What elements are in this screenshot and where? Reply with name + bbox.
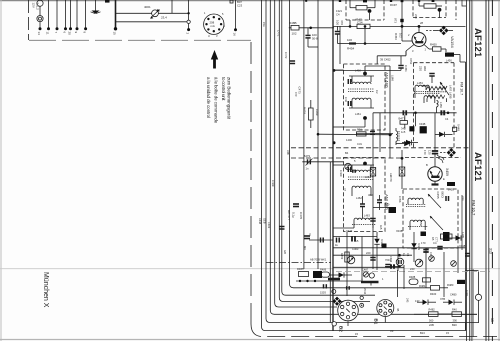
svg-text:R453: R453 — [394, 33, 398, 40]
oval resistor right of B1 — [409, 279, 418, 285]
diode mid — [402, 142, 406, 144]
svg-text:R480: R480 — [447, 283, 454, 287]
svg-text:L462: L462 — [356, 196, 362, 200]
svg-text:C470: C470 — [299, 212, 303, 220]
diode at left bottom — [330, 274, 339, 276]
svg-text:X459: X459 — [445, 168, 449, 176]
svg-text:28: 28 — [420, 21, 423, 25]
wire term4 — [65, 0, 67, 29]
svg-text:560: 560 — [429, 319, 434, 323]
vertical coil L459 — [437, 101, 439, 107]
svg-text:L461: L461 — [355, 112, 361, 116]
svg-text:B479: B479 — [303, 107, 307, 114]
choke black — [445, 53, 454, 57]
border line r3 — [470, 0, 472, 341]
IF transformer 1 — [352, 82, 371, 84]
row y112.8: long line — [373, 112, 457, 114]
svg-text:15: 15 — [490, 318, 494, 322]
blob circle — [396, 258, 404, 266]
svg-text:AF121: AF121 — [472, 28, 483, 58]
transistor T1 — [412, 33, 426, 47]
wire term5 — [70, 0, 72, 29]
svg-text:23,4: 23,4 — [161, 16, 167, 20]
svg-text:L457 L45B: L457 L45B — [449, 85, 453, 99]
svg-text:X44B: X44B — [419, 122, 426, 126]
border line r1 — [466, 0, 468, 341]
capacitor at x337 — [337, 26, 339, 30]
IF transformer 2 — [352, 170, 371, 172]
wire term8 thick — [115, 0, 117, 29]
svg-text:to control unit: to control unit — [221, 77, 226, 101]
svg-text:R4B5: R4B5 — [297, 267, 304, 271]
dashed module box top — [346, 0, 384, 20]
resistor in box — [424, 4, 436, 8]
test point diamond top — [439, 26, 449, 36]
svg-text:L463: L463 — [364, 214, 370, 218]
svg-text:X448: X448 — [457, 124, 461, 131]
svg-text:L456: L456 — [419, 220, 423, 226]
trimmer cap in FM2 — [443, 232, 450, 241]
terminal panel border (dashed) — [29, 0, 252, 40]
diodes bottom — [423, 300, 428, 305]
wire term9 — [188, 0, 190, 20]
long verticals — [346, 232, 348, 296]
svg-text:C31: C31 — [357, 142, 362, 146]
svg-text:VA154: VA154 — [450, 36, 455, 48]
svg-text:X7B: X7B — [440, 297, 445, 301]
between modules row — [357, 132, 367, 136]
trimmer pair — [363, 272, 368, 277]
corner tick — [462, 0, 466, 6]
svg-text:R450: R450 — [430, 43, 437, 47]
svg-text:1321: 1321 — [336, 9, 342, 13]
faint dashed row — [336, 271, 490, 273]
svg-text:220: 220 — [419, 66, 423, 71]
svg-text:460: 460 — [368, 193, 373, 197]
vertical coil — [396, 131, 398, 141]
svg-text:100k: 100k — [315, 109, 319, 116]
svg-text:C2: C2 — [375, 90, 379, 94]
line to diamond — [426, 30, 433, 32]
diode X449 a — [374, 239, 379, 244]
top edge component stubs — [230, 0, 233, 3]
svg-text:C469: C469 — [267, 222, 271, 229]
dash-dot shield line — [267, 262, 332, 264]
capacitor on bus — [293, 204, 299, 207]
page bottom edge — [0, 339, 500, 341]
horizontal y70.4 — [333, 69, 401, 71]
svg-text:L459: L459 — [439, 102, 443, 108]
black cap — [409, 126, 414, 131]
diode X449 b — [411, 243, 416, 248]
wire term1 — [39, 6, 41, 15]
svg-text:L455: L455 — [448, 188, 454, 192]
svg-text:P04x: P04x — [357, 128, 364, 132]
contents of top box — [356, 6, 367, 10]
svg-text:C473: C473 — [298, 87, 302, 95]
svg-text:X449: X449 — [346, 229, 353, 233]
extra tiny labels pass — [271, 3, 469, 336]
svg-text:50-8: 50-8 — [312, 37, 318, 41]
svg-text:12V: 12V — [32, 3, 36, 8]
svg-text:L460: L460 — [355, 69, 361, 73]
svg-text:mA: mA — [211, 24, 215, 28]
svg-text:15: 15 — [446, 331, 449, 335]
choke right of T2 — [447, 182, 455, 186]
wire y21.8 to open contact — [116, 21, 187, 23]
svg-text:313: 313 — [489, 248, 493, 254]
resistor vertical left — [345, 252, 349, 262]
cross link y134 — [318, 133, 392, 136]
long vertical x333 thick — [332, 0, 334, 331]
svg-text:C487: C487 — [362, 268, 369, 272]
connector circle right — [478, 272, 480, 295]
svg-text:11: 11 — [46, 32, 50, 35]
svg-text:L450: L450 — [446, 59, 452, 63]
svg-text:B479: B479 — [304, 154, 311, 158]
pin circles between sockets — [360, 296, 363, 299]
svg-text:C469: C469 — [271, 180, 275, 187]
svg-text:R40: R40 — [452, 308, 457, 312]
dashed box top right — [413, 0, 456, 20]
potentiometer P — [152, 10, 159, 17]
svg-text:C23: C23 — [237, 4, 243, 8]
top right: wire x402 — [401, 0, 403, 26]
left resistor cluster — [299, 272, 309, 277]
bus small cap x292 — [290, 61, 295, 64]
svg-text:22B: 22B — [429, 323, 434, 327]
cap + labels at 435,152 — [432, 151, 438, 154]
svg-text:a la unidad de control: a la unidad de control — [206, 77, 211, 118]
svg-text:zum Bedienungsgerät: zum Bedienungsgerät — [227, 77, 232, 120]
svg-text:C4: C4 — [406, 253, 410, 257]
svg-text:X448: X448 — [459, 244, 466, 248]
svg-text:C471: C471 — [277, 30, 281, 37]
svg-text:15: 15 — [113, 32, 117, 36]
svg-text:AM 460: AM 460 — [384, 72, 389, 88]
svg-text:1405: 1405 — [461, 232, 465, 238]
svg-text:15: 15 — [355, 332, 358, 336]
svg-text:14: 14 — [37, 32, 41, 36]
wire bus4 — [275, 0, 337, 307]
bus wire bundle — [251, 0, 497, 337]
svg-text:à le boîte de commande: à le boîte de commande — [214, 77, 219, 124]
junction x402 — [401, 157, 404, 160]
svg-text:C460: C460 — [339, 170, 343, 177]
svg-text:GB 477: GB 477 — [287, 210, 291, 221]
svg-text:R400: R400 — [430, 292, 437, 296]
svg-text:100: 100 — [336, 20, 340, 25]
svg-text:RC97: RC97 — [390, 3, 397, 7]
wire term2 — [48, 0, 50, 29]
film crease line — [0, 268, 500, 270]
resistors bottom — [429, 312, 439, 317]
svg-text:B13: B13 — [420, 331, 425, 335]
AM460 module 1 box — [344, 64, 386, 130]
svg-text:243: 243 — [410, 267, 415, 271]
svg-text:R486: R486 — [320, 268, 327, 272]
electrolytic cap — [349, 42, 356, 44]
bottom right cluster — [423, 250, 428, 253]
svg-text:X04B: X04B — [396, 229, 403, 233]
line under film — [333, 266, 404, 268]
bottom dashed border — [250, 42, 252, 324]
svg-text:15A: 15A — [262, 22, 266, 27]
svg-text:B4: B4 — [345, 151, 349, 155]
socket stub lines — [347, 321, 349, 326]
svg-text:C4: C4 — [433, 241, 437, 245]
svg-text:120: 120 — [428, 150, 432, 155]
DIN connector Bu — [204, 14, 224, 34]
long vertical x330 — [329, 162, 331, 323]
tube socket B1 — [377, 300, 394, 317]
second switch bar — [328, 278, 340, 281]
black block — [420, 126, 427, 133]
svg-text:4001: 4001 — [144, 5, 151, 9]
wire bus3 — [270, 0, 477, 314]
switch bar — [361, 281, 379, 283]
transformer 2b — [345, 163, 351, 169]
border line r5 — [488, 0, 490, 341]
wire term10 — [235, 0, 237, 29]
svg-text:M6: M6 — [303, 246, 307, 250]
ground bar under T2 — [434, 181, 436, 184]
page left edge — [0, 0, 2, 341]
long horizontals — [333, 236, 377, 238]
resistor on bus top — [289, 27, 291, 29]
svg-text:243: 243 — [406, 298, 410, 303]
svg-text:R454: R454 — [347, 47, 355, 51]
open circle on bottom line — [332, 322, 336, 326]
svg-text:47: 47 — [343, 188, 347, 191]
trimmer pot — [415, 259, 423, 267]
capacitor on bus6 — [279, 227, 284, 230]
svg-text:L453: L453 — [417, 81, 423, 85]
svg-text:C472: C472 — [284, 52, 288, 59]
svg-text:AM470: AM470 — [389, 173, 393, 182]
dashed separator under terminal row — [29, 39, 251, 41]
svg-text:4B: 4B — [396, 308, 400, 311]
caps near B2 — [347, 286, 350, 290]
top edge cut stubs — [339, 0, 341, 2]
wire term7 — [85, 0, 87, 29]
svg-text:39 C452: 39 C452 — [380, 58, 391, 62]
svg-text:B20: B20 — [452, 323, 457, 327]
svg-text:B1: B1 — [374, 319, 379, 325]
black cap mid — [389, 207, 397, 213]
wire bus6 — [282, 0, 375, 295]
ground symbol — [95, 0, 97, 11]
wire term6 — [76, 0, 78, 29]
svg-text:BEO: BEO — [441, 192, 445, 199]
svg-text:C459: C459 — [389, 256, 393, 263]
open terminal circle — [332, 290, 336, 294]
svg-text:C4: C4 — [336, 13, 340, 17]
svg-text:GEB: GEB — [263, 218, 267, 224]
svg-text:B: B — [426, 163, 428, 167]
svg-text:R48B: R48B — [289, 21, 297, 25]
svg-text:102: 102 — [399, 33, 403, 38]
border line r4 — [485, 0, 487, 341]
svg-text:220: 220 — [414, 14, 418, 19]
left cluster oval — [321, 272, 330, 277]
svg-text:München X: München X — [42, 272, 49, 308]
long dashed separator y147.5 — [291, 147, 470, 149]
lamp L1 — [37, 0, 43, 6]
resistor block mid-left — [309, 108, 314, 120]
svg-text:100: 100 — [347, 38, 352, 42]
wire bus8 — [303, 0, 305, 269]
svg-text:1n5: 1n5 — [401, 130, 406, 134]
svg-text:FM 10,7: FM 10,7 — [471, 200, 476, 216]
FM module 2 + transistor T2 — [405, 157, 461, 159]
link y161.8 with trimmer — [302, 161, 343, 163]
emitter feed line — [377, 55, 406, 57]
wire bus1 — [262, 0, 466, 331]
svg-text:C451: C451 — [404, 65, 408, 72]
resistor right of T1 — [429, 48, 433, 50]
svg-text:R481: R481 — [419, 284, 426, 288]
page top edge — [0, 0, 500, 2]
svg-text:2x1,2: 2x1,2 — [36, 3, 40, 11]
svg-text:220: 220 — [366, 251, 371, 255]
svg-text:GB: GB — [283, 250, 287, 254]
svg-text:C463: C463 — [352, 247, 359, 251]
wire bus2 — [266, 0, 479, 323]
wire bus7 — [290, 0, 431, 288]
border line r2 — [469, 0, 471, 341]
FM coil assembly mid — [415, 85, 429, 87]
svg-text:16: 16 — [233, 33, 237, 37]
svg-text:C456: C456 — [398, 196, 402, 203]
long vertical x318 — [317, 0, 319, 269]
FM IF transformer A — [426, 86, 446, 90]
svg-text:E: E — [443, 177, 445, 181]
svg-text:U: U — [208, 35, 210, 38]
capacitor C4 — [307, 28, 309, 35]
svg-text:R5: R5 — [431, 237, 435, 241]
right border + labels — [462, 0, 499, 341]
FM module 2 dashed box — [403, 189, 458, 248]
svg-text:102: 102 — [292, 32, 297, 36]
AM460 module 2 box — [344, 158, 386, 232]
capacitor on bus 2 — [304, 236, 310, 239]
svg-text:0,1μ: 0,1μ — [292, 212, 296, 218]
svg-text:7034: 7034 — [363, 288, 367, 295]
arrow to control unit — [206, 50, 232, 124]
svg-text:C455: C455 — [436, 192, 440, 200]
svg-text:R482: R482 — [429, 308, 436, 312]
svg-text:FM 10,7: FM 10,7 — [460, 82, 464, 95]
svg-text:C46: C46 — [344, 97, 348, 102]
svg-text:AF121: AF121 — [472, 152, 483, 182]
svg-text:R459: R459 — [340, 253, 344, 260]
svg-text:AB 7059 WK1: AB 7059 WK1 — [310, 258, 327, 262]
svg-text:L462: L462 — [365, 175, 371, 179]
dashed margin line — [491, 0, 493, 341]
svg-text:137: 137 — [415, 299, 420, 303]
svg-text:X452: X452 — [409, 58, 413, 65]
svg-text:R488: R488 — [409, 275, 416, 279]
wire to pot — [116, 12, 190, 14]
svg-text:X449: X449 — [380, 239, 384, 246]
svg-text:C481: C481 — [465, 290, 469, 297]
svg-text:170: 170 — [421, 241, 426, 245]
svg-text:34B: 34B — [286, 150, 290, 155]
test point diamond bottom — [332, 297, 341, 306]
svg-text:170: 170 — [423, 150, 427, 155]
extra small comps — [421, 232, 427, 237]
tube socket B2 — [338, 300, 359, 321]
links module1 to bus — [333, 69, 344, 71]
svg-text:470: 470 — [294, 92, 298, 97]
svg-text:244: 244 — [461, 196, 465, 201]
fuse cut at top — [105, 0, 110, 3]
svg-text:973: 973 — [394, 18, 398, 23]
svg-text:X448: X448 — [258, 218, 262, 225]
svg-text:C2: C2 — [390, 329, 394, 333]
detector row caps — [309, 239, 333, 241]
svg-text:1400: 1400 — [346, 138, 352, 142]
svg-text:4n: 4n — [308, 233, 312, 236]
svg-text:1k5: 1k5 — [379, 225, 383, 230]
svg-text:20: 20 — [68, 32, 72, 36]
caps row y238-268 — [352, 236, 355, 242]
capacitor under T1 area — [400, 56, 402, 65]
diode lower left — [396, 143, 404, 145]
svg-text:470: 470 — [340, 20, 344, 25]
wire bus5 — [279, 0, 370, 302]
dashed FM box 1 — [413, 63, 454, 148]
svg-text:B2: B2 — [339, 326, 344, 332]
svg-text:C4: C4 — [445, 117, 449, 121]
diode X448 — [435, 133, 439, 135]
svg-text:C4B0: C4B0 — [450, 293, 457, 297]
trimmer left — [347, 256, 355, 264]
svg-text:LMK: LMK — [391, 75, 395, 81]
wire term3 — [56, 0, 58, 29]
svg-text:7k5: 7k5 — [354, 239, 359, 243]
svg-text:1503: 1503 — [320, 291, 326, 295]
svg-text:390: 390 — [453, 319, 458, 323]
svg-text:L454: L454 — [437, 86, 443, 90]
FM IF transformer — [408, 198, 423, 200]
svg-text:960: 960 — [423, 66, 427, 71]
wire pot top — [171, 0, 173, 13]
small rect right — [453, 127, 457, 131]
right of module1: vertical link — [389, 66, 391, 158]
caps on row — [403, 110, 406, 115]
gap column x373 — [372, 152, 374, 269]
edge line far right — [498, 0, 500, 341]
svg-text:480: 480 — [385, 203, 390, 207]
border line r3b — [472, 0, 474, 341]
links module2 to bus — [333, 164, 349, 166]
test point diamond mid — [447, 148, 456, 157]
